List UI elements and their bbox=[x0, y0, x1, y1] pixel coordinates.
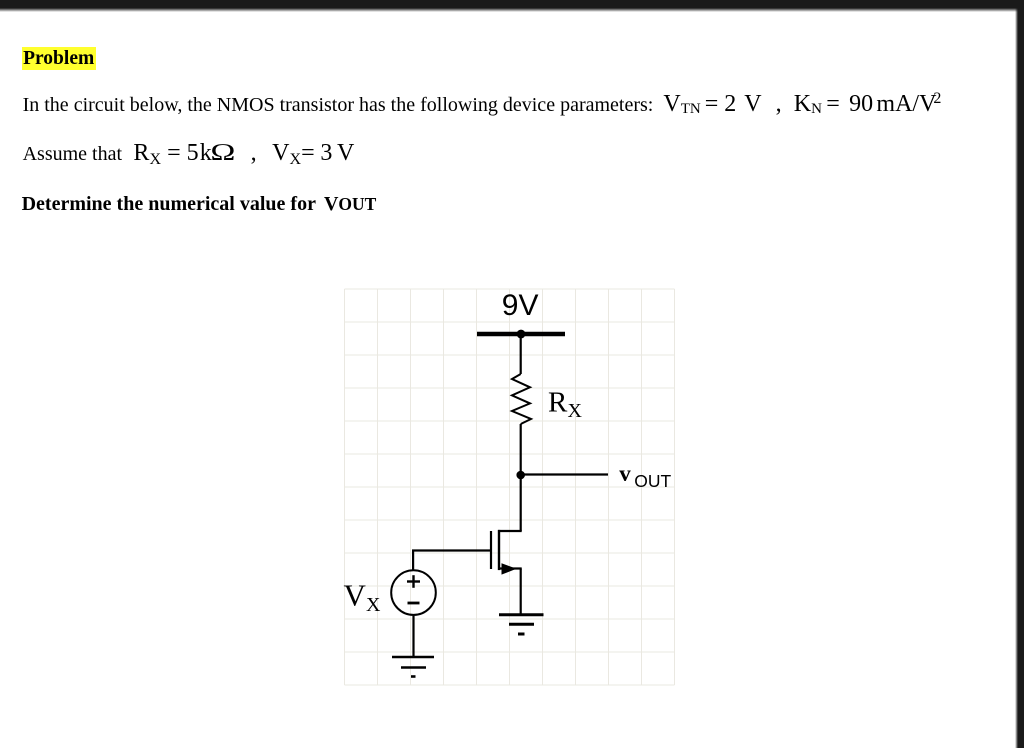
svg-text:R: R bbox=[548, 387, 568, 419]
svg-text:X: X bbox=[366, 594, 381, 616]
svg-text:X: X bbox=[568, 400, 583, 422]
svg-text:9V: 9V bbox=[502, 289, 539, 322]
svg-text:V: V bbox=[344, 577, 367, 612]
svg-text:OUT: OUT bbox=[634, 471, 671, 491]
svg-text:v: v bbox=[619, 461, 631, 486]
